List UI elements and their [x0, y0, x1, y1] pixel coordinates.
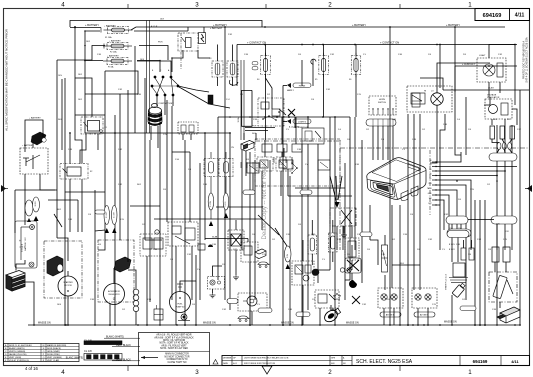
svg-text:1.5N: 1.5N	[68, 149, 73, 151]
horn HN	[322, 306, 342, 324]
svg-text:FIRST ISSUE FOR PRODUCTION: FIRST ISSUE FOR PRODUCTION	[244, 363, 276, 365]
flasher FL1	[302, 128, 324, 144]
wire	[70, 21, 262, 28]
wire	[217, 45, 219, 62]
wire	[318, 269, 330, 271]
wire	[75, 78, 92, 117]
wire	[323, 45, 325, 56]
svg-text:MASSE GN: MASSE GN	[346, 322, 359, 325]
wire	[241, 150, 243, 250]
connector CN9	[178, 122, 198, 134]
wire	[311, 220, 313, 235]
connector 3D small	[255, 249, 266, 259]
wire	[69, 202, 71, 232]
wire	[440, 114, 445, 160]
wire	[67, 271, 69, 276]
legend table	[4, 344, 80, 362]
svg-text:1.5 PK: 1.5 PK	[225, 201, 227, 207]
svg-text:30.AB: 30.AB	[212, 235, 218, 238]
svg-text:MASSE GN: MASSE GN	[38, 322, 51, 325]
wire	[146, 256, 148, 325]
wire	[104, 115, 106, 230]
wire	[312, 59, 314, 86]
wire	[497, 150, 499, 154]
svg-text:30: 30	[430, 160, 432, 162]
wire harness funnel	[330, 176, 337, 205]
key switch S1	[151, 76, 179, 96]
svg-text:REGULATOR: REGULATOR	[108, 293, 120, 296]
wire	[40, 174, 55, 190]
svg-text:GRIS (GRAY): GRIS (GRAY)	[47, 350, 60, 353]
svg-text:1.5R: 1.5R	[233, 249, 238, 251]
svg-text:1.5R: 1.5R	[118, 89, 123, 91]
wire	[56, 60, 58, 190]
wire	[413, 114, 415, 160]
fuel sender FS	[382, 245, 388, 272]
pie mark	[349, 280, 357, 288]
svg-text:+: +	[19, 239, 21, 243]
component box	[318, 160, 330, 170]
wire	[454, 66, 456, 92]
connector CN6	[208, 277, 225, 290]
wire	[332, 220, 334, 233]
wire	[81, 202, 83, 232]
wire	[288, 195, 352, 197]
wire	[139, 46, 168, 61]
connector pins oval	[366, 119, 396, 126]
svg-text:AR.A 1/8 : FIL ROULE VERT-NOIR: AR.A 1/8 : FIL ROULE VERT-NOIR	[156, 334, 192, 337]
wire	[287, 169, 289, 196]
wire	[243, 133, 245, 140]
svg-text:4N.4: 4N.4	[400, 263, 404, 265]
svg-text:F3 5A: F3 5A	[108, 66, 114, 69]
hook connector M1	[311, 59, 316, 64]
wire	[195, 281, 197, 325]
wire	[289, 250, 291, 325]
wire	[217, 117, 219, 280]
tag oval	[258, 308, 272, 313]
alternator G	[98, 240, 134, 302]
wire loop 2	[85, 71, 138, 94]
wire	[329, 117, 331, 270]
svg-text:1.5G: 1.5G	[175, 159, 180, 161]
wire	[232, 45, 234, 62]
svg-text:DESSINE: DESSINE	[223, 358, 232, 360]
wire	[69, 133, 71, 164]
wire	[265, 74, 267, 140]
relay K1	[178, 33, 198, 51]
wire	[443, 89, 529, 91]
svg-text:1.5R: 1.5R	[330, 54, 335, 56]
wire	[419, 160, 421, 290]
glow relay GP	[292, 261, 314, 285]
connector CN5	[491, 216, 517, 224]
wire	[342, 226, 344, 250]
wire	[343, 226, 345, 233]
wire	[301, 60, 303, 86]
wire	[354, 117, 356, 250]
svg-text:+ CONTACT ON: + CONTACT ON	[247, 40, 266, 44]
ESA box X	[341, 210, 352, 224]
relay K7	[168, 222, 198, 246]
headlight HL2	[238, 293, 267, 311]
wire	[245, 151, 247, 176]
circled pair	[340, 268, 344, 272]
wire	[451, 238, 453, 263]
connector CN3	[489, 153, 517, 161]
svg-text:85: 85	[430, 169, 432, 171]
wire	[113, 268, 115, 284]
wire pair right	[240, 60, 242, 140]
car glyph	[258, 262, 270, 267]
svg-text:NOTA : FIL VRT NOIR: NOTA : FIL VRT NOIR	[163, 339, 186, 342]
wire	[61, 79, 63, 150]
wire	[370, 240, 378, 265]
svg-text:VERT CLAIR: VERT CLAIR	[47, 359, 60, 362]
wire	[510, 139, 512, 143]
wire	[180, 255, 196, 292]
switch SW2	[219, 159, 233, 177]
wire	[85, 61, 115, 134]
svg-text:LIGHT: LIGHT	[479, 55, 486, 57]
svg-text:1.5R: 1.5R	[362, 304, 367, 306]
connector CN4	[446, 216, 468, 224]
wire	[261, 171, 263, 230]
relay pins	[240, 162, 242, 168]
wire	[245, 130, 268, 132]
wire	[249, 152, 251, 325]
tag arrows	[105, 228, 109, 233]
ECU module U1	[367, 158, 426, 201]
gnd G1	[210, 293, 216, 298]
inner module A	[262, 144, 272, 152]
wire	[15, 189, 57, 191]
wire	[491, 119, 493, 125]
wire	[384, 275, 386, 290]
wire	[175, 246, 177, 325]
fuse F4	[261, 53, 271, 78]
wire	[492, 139, 499, 143]
wire	[503, 150, 506, 154]
wire	[504, 161, 506, 216]
svg-text:+ BATTERY: + BATTERY	[109, 40, 121, 43]
wire	[468, 219, 494, 221]
fuse F5	[319, 53, 329, 78]
wire	[454, 27, 456, 92]
svg-text:DATE: DATE	[223, 362, 229, 365]
wire	[496, 125, 498, 153]
wire	[420, 78, 443, 90]
svg-text:SW: SW	[429, 198, 432, 200]
svg-text:AV GN B: AV GN B	[420, 314, 429, 317]
wire	[504, 119, 506, 125]
wire	[344, 163, 346, 300]
tag oval	[296, 312, 310, 317]
wire	[48, 199, 78, 201]
car glyph 2	[238, 316, 250, 321]
switch mark	[279, 109, 286, 115]
wire	[265, 45, 267, 56]
wire	[470, 230, 472, 250]
ECU connector pins	[429, 150, 431, 215]
funnel arrowhead	[335, 202, 340, 208]
connector pins	[497, 143, 501, 150]
wire	[67, 296, 69, 325]
wire	[172, 50, 183, 72]
wire	[474, 200, 476, 325]
svg-text:1.5R: 1.5R	[428, 239, 433, 241]
wire	[74, 27, 76, 115]
svg-text:694169: 694169	[483, 13, 502, 19]
wire	[245, 127, 275, 129]
wire	[355, 45, 357, 56]
wire	[439, 45, 441, 89]
connector CN7	[447, 229, 471, 237]
wire	[149, 140, 151, 302]
label tag	[112, 206, 118, 225]
wire	[14, 190, 16, 233]
wire	[114, 115, 116, 325]
key boot	[148, 104, 162, 126]
wire	[436, 152, 461, 162]
wire	[236, 45, 238, 87]
svg-text:REGULATOR: REGULATOR	[487, 96, 500, 99]
wire	[119, 94, 121, 133]
svg-text:VERTE (GREEN): VERTE (GREEN)	[9, 351, 26, 353]
svg-text:+ BATTERY: + BATTERY	[352, 23, 366, 27]
svg-text:1.5R: 1.5R	[326, 89, 331, 91]
label tag	[104, 206, 110, 225]
resistor R5	[503, 247, 510, 262]
svg-text:VERT (GREEN): VERT (GREEN)	[47, 357, 62, 359]
fuse module D1	[212, 61, 223, 77]
fuel pump M2	[170, 292, 191, 313]
starter motor M	[44, 241, 82, 298]
wire	[384, 235, 386, 245]
wire	[204, 133, 206, 240]
lamp L1	[378, 288, 403, 308]
svg-text:1.5 MR: 1.5 MR	[113, 212, 115, 218]
svg-text:1.5 GN: 1.5 GN	[210, 201, 212, 207]
wire	[407, 114, 409, 300]
wire	[351, 225, 353, 238]
wire	[361, 250, 363, 283]
svg-text:1: 1	[468, 369, 472, 376]
wire	[85, 46, 105, 61]
wire	[54, 214, 62, 227]
ESA boundary box	[330, 208, 356, 226]
svg-text:SWITCH: SWITCH	[378, 102, 386, 104]
svg-text:MOTOR: MOTOR	[64, 285, 72, 287]
wire	[471, 240, 473, 248]
svg-text:MAIN IN CONNECTOR: MAIN IN CONNECTOR	[165, 353, 189, 356]
wire	[465, 97, 467, 155]
wire	[137, 61, 160, 73]
relay K4	[60, 164, 88, 180]
connector 3D CN10	[241, 141, 254, 152]
wire	[502, 139, 504, 143]
svg-text:CLOSE TIGHT NO: CLOSE TIGHT NO	[168, 362, 187, 364]
wire	[436, 170, 505, 172]
svg-text:+ BATTERY: + BATTERY	[22, 144, 34, 147]
svg-text:1.5N: 1.5N	[153, 249, 158, 251]
svg-text:+ BATTERY: + BATTERY	[85, 23, 99, 27]
resistor R2	[500, 126, 505, 139]
wire	[98, 230, 105, 250]
svg-text:TACH: TACH	[427, 187, 432, 190]
wire	[338, 176, 342, 200]
svg-text:MARR 1: MARR 1	[287, 89, 294, 92]
wire	[128, 270, 136, 289]
wire	[115, 132, 230, 134]
svg-text:BLANC (WHITE): BLANC (WHITE)	[9, 347, 25, 350]
wire	[488, 82, 490, 97]
fuse F3	[103, 58, 132, 65]
wire	[134, 46, 136, 133]
wire	[504, 125, 506, 153]
svg-text:GPR: GPR	[331, 358, 336, 360]
fuse module D2	[227, 61, 238, 77]
connector cluster CN11	[241, 242, 258, 262]
svg-text:1.5N: 1.5N	[403, 234, 408, 236]
wire	[330, 305, 332, 310]
wire	[235, 220, 237, 230]
svg-text:30.R: 30.R	[137, 184, 142, 186]
oval label	[414, 312, 435, 317]
wire	[439, 160, 441, 205]
wire	[235, 250, 237, 268]
wire 30.AB	[205, 238, 248, 240]
wire	[56, 190, 58, 238]
wire	[199, 163, 201, 300]
wire	[69, 179, 71, 202]
wire	[75, 115, 82, 164]
wire	[334, 117, 336, 325]
wire	[383, 308, 385, 325]
ECU ribs	[0, 0, 1, 1]
svg-text:1.5R: 1.5R	[222, 309, 227, 311]
wire	[499, 302, 501, 308]
svg-text:1: 1	[468, 2, 472, 9]
svg-text:86: 86	[430, 174, 432, 176]
svg-text:MARRON (BROWN): MARRON (BROWN)	[47, 344, 66, 347]
svg-text:LO: LO	[431, 91, 434, 93]
component CP2	[283, 160, 293, 169]
wire	[336, 226, 338, 250]
voltage regulator VR1	[485, 99, 512, 119]
spark cap	[452, 282, 466, 297]
svg-text:16.N: 16.N	[57, 304, 62, 306]
svg-text:B+: B+	[429, 178, 431, 180]
wire	[232, 77, 234, 86]
wire	[361, 140, 363, 250]
wire	[65, 191, 105, 193]
title block	[222, 356, 530, 366]
svg-text:VIOLET (PURPLE) B: VIOLET (PURPLE) B	[9, 360, 29, 362]
wire	[283, 148, 285, 157]
fuse F1	[104, 27, 133, 34]
svg-text:CL 1/8: CL 1/8	[84, 349, 92, 353]
wire loop	[242, 90, 252, 126]
wire	[436, 185, 466, 230]
svg-text:40.A.R: 40.A.R	[488, 87, 494, 90]
wire	[511, 161, 513, 216]
fuse F6	[351, 53, 361, 78]
wire	[179, 87, 230, 108]
wire	[349, 117, 351, 280]
wire	[295, 187, 345, 189]
wire	[496, 161, 498, 325]
wire	[399, 300, 401, 325]
svg-text:+ CONTACT: + CONTACT	[462, 63, 476, 66]
wire	[119, 133, 121, 240]
svg-text:30.R: 30.R	[57, 209, 62, 211]
wire	[436, 105, 438, 160]
svg-text:SCH. ELECT. NG25 ESA: SCH. ELECT. NG25 ESA	[356, 359, 413, 365]
svg-text:SHT 4 OF 11 SCHEMA ELECT NG25: SHT 4 OF 11 SCHEMA ELECT NG25 ESA	[526, 37, 529, 83]
wire jog	[131, 27, 136, 30]
wire	[317, 176, 319, 250]
circled terminal	[155, 230, 159, 234]
wire	[94, 231, 96, 325]
svg-text:K2: K2	[90, 171, 92, 173]
wire	[301, 240, 303, 325]
wire	[317, 144, 319, 176]
wire	[389, 160, 391, 325]
wire	[157, 126, 159, 140]
svg-text:BATTERY 12V: BATTERY 12V	[24, 237, 27, 251]
wire	[419, 114, 421, 160]
svg-text:1.5N: 1.5N	[286, 234, 291, 236]
wire	[166, 100, 168, 222]
filled terminal block	[208, 95, 213, 104]
notes box	[139, 333, 210, 366]
svg-text:694169: 694169	[473, 359, 488, 364]
relay K6	[315, 290, 339, 308]
tag oval	[95, 210, 105, 214]
svg-text:4/11: 4/11	[511, 359, 519, 364]
svg-text:K1: K1	[105, 127, 107, 129]
wire	[319, 308, 321, 325]
wire	[150, 126, 152, 140]
wire	[372, 126, 374, 160]
wire	[336, 176, 337, 200]
horn H1	[287, 83, 291, 88]
wire	[109, 303, 111, 325]
svg-text:4 of 16: 4 of 16	[25, 366, 38, 371]
wire	[16, 260, 25, 271]
wire	[463, 240, 465, 248]
wire	[187, 27, 189, 31]
wire	[283, 85, 287, 87]
svg-text:A 1.5 R: A 1.5 R	[151, 25, 158, 28]
fuse module FM1	[308, 235, 317, 254]
wire	[172, 151, 190, 153]
wire	[369, 205, 371, 240]
wire	[275, 228, 287, 246]
svg-text:ROSE (PINK): ROSE (PINK)	[47, 354, 60, 356]
svg-text:HORN: HORN	[379, 99, 385, 101]
svg-text:+ BATTERY: + BATTERY	[104, 25, 116, 28]
relay K10	[276, 157, 292, 171]
svg-text:MASSE GN: MASSE GN	[281, 322, 294, 325]
wire	[317, 250, 319, 283]
+CONTACT ON bus wire	[237, 44, 517, 46]
label tag	[25, 200, 33, 216]
svg-text:1.5R: 1.5R	[498, 54, 503, 56]
fuse F2	[103, 43, 132, 50]
wire	[57, 238, 68, 261]
